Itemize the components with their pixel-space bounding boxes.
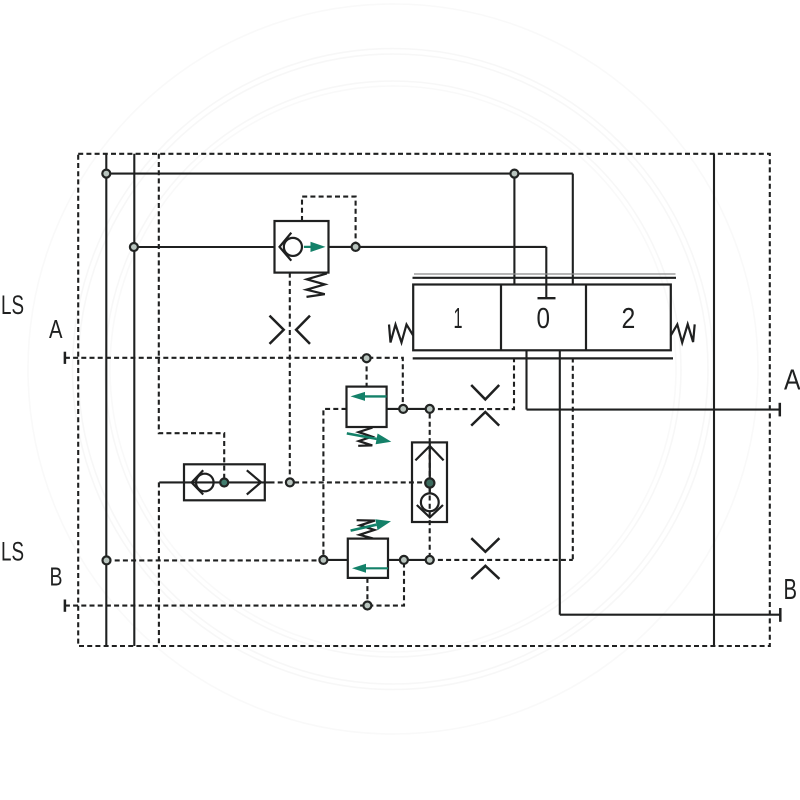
svg-text:LS: LS <box>1 536 24 566</box>
svg-text:A: A <box>49 314 63 344</box>
svg-text:B: B <box>784 574 798 606</box>
svg-text:0: 0 <box>537 303 551 335</box>
svg-text:A: A <box>784 364 800 396</box>
svg-text:B: B <box>50 562 63 592</box>
svg-text:1: 1 <box>454 303 463 335</box>
svg-text:LS: LS <box>1 290 24 320</box>
svg-text:2: 2 <box>622 303 636 335</box>
